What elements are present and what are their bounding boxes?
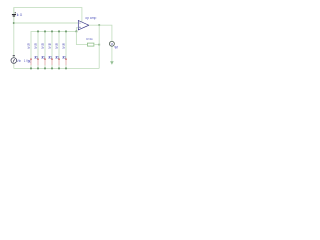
svg-text:1k: 1k (17, 13, 20, 17)
red element branch 3 (44, 59, 46, 66)
branch 5 wire (58, 31, 60, 59)
bus junction dots (37, 31, 77, 33)
svg-text:R=1k: R=1k (86, 37, 93, 41)
voltmeter lower lead (111, 47, 113, 63)
branch 3 wire (44, 31, 46, 59)
svg-text:2k: 2k (62, 45, 65, 49)
node A junction dot (13, 22, 15, 24)
right vertical wire (output node to bottom bus) (98, 25, 100, 68)
wire H3 right segment (94, 44, 99, 46)
red element branch 6 (65, 59, 67, 66)
bottom bus junction dots (30, 68, 67, 70)
op-amp U1 (78, 21, 89, 30)
bottom bus wire (14, 67, 99, 69)
voltmeter lead end arrow (110, 61, 114, 64)
red element branch 1 (30, 59, 32, 66)
AC source VS (11, 55, 17, 63)
svg-text:op amp: op amp (85, 16, 96, 20)
junction dot H3/right vertical (98, 44, 100, 46)
red element branch 5 (58, 59, 60, 66)
wire left vertical lower (13, 63, 15, 69)
battery V1 (12, 12, 16, 16)
junction dot output node (98, 24, 100, 26)
svg-text:2k: 2k (41, 45, 44, 49)
bus wire (middle rail) (31, 28, 78, 59)
feedback resistor RF box (87, 43, 94, 46)
wire left vertical (source branch) (13, 8, 15, 58)
branch 6 wire (65, 31, 67, 59)
svg-text:2k: 2k (48, 45, 51, 49)
svg-text:10k: 10k (27, 60, 31, 64)
svg-text:2k: 2k (34, 45, 37, 49)
wire H2 inverting input rail (14, 22, 79, 24)
svg-text:2k: 2k (55, 45, 58, 49)
op-amp output wire (89, 25, 112, 41)
wire top horizontal H1 (14, 8, 82, 23)
svg-text:Ω: Ω (20, 13, 23, 17)
red element branch 4 (51, 59, 53, 66)
svg-text:Vin: Vin (17, 59, 22, 63)
branch 4 wire (51, 31, 53, 59)
feedback drop wire from + node (76, 31, 87, 44)
svg-text:VM: VM (114, 45, 118, 49)
svg-text:1k: 1k (27, 45, 30, 49)
voltmeter VM (109, 41, 114, 46)
red element branch 2 (37, 59, 39, 66)
branch 1 lower wire (30, 65, 32, 69)
branch 2 wire (37, 31, 39, 59)
